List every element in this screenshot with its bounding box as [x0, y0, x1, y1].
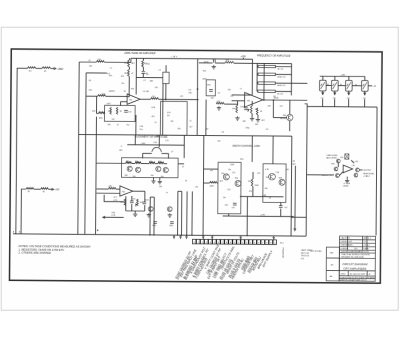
resistor ladder R16 [258, 65, 275, 68]
svg-text:7n2: 7n2 [284, 207, 287, 209]
svg-text:100p: 100p [240, 106, 244, 108]
connector PL2 pin row [192, 239, 195, 244]
wire tap [275, 66, 291, 68]
wire link [338, 85, 345, 87]
svg-text:1 ALTD BY: 1 ALTD BY [341, 237, 351, 240]
capacitor C12 [170, 222, 174, 224]
capacitor C21 [142, 72, 146, 74]
wire [127, 76, 129, 96]
svg-text:100K: 100K [209, 186, 214, 188]
wire [142, 74, 144, 78]
svg-text:PCB EDGE: PCB EDGE [281, 248, 283, 259]
svg-text:10n: 10n [232, 207, 235, 209]
svg-text:R40: R40 [156, 136, 159, 138]
svg-text:FREQUENCY OR AMPLITUDE: FREQUENCY OR AMPLITUDE [257, 54, 291, 57]
wire [161, 152, 168, 154]
wire [134, 135, 136, 145]
resistor R23 [256, 108, 258, 115]
svg-text:2K2: 2K2 [112, 91, 115, 93]
svg-text:1K2: 1K2 [217, 141, 220, 143]
resistor R5 [96, 60, 104, 62]
svg-text:+18V: +18V [340, 74, 346, 76]
svg-text:+9: +9 [240, 88, 242, 90]
resistor ladder R17 [258, 73, 275, 76]
transistor Q17 [148, 206, 153, 211]
svg-text:AMPLITUDE OR AMPLIFIER: AMPLITUDE OR AMPLIFIER [123, 52, 155, 55]
wire link [326, 84, 331, 86]
svg-text:WIDTH CONTROL CIRC: WIDTH CONTROL CIRC [232, 145, 260, 148]
svg-text:C24: C24 [227, 189, 230, 191]
svg-text:3 REDRAWN: 3 REDRAWN [340, 244, 353, 247]
wire +18V rail [131, 57, 253, 60]
wire [165, 65, 167, 72]
svg-text:TR1: TR1 [131, 88, 134, 90]
width control box left [218, 162, 241, 214]
svg-text:+5V: +5V [55, 188, 60, 191]
wire [96, 112, 98, 114]
ground [212, 65, 216, 69]
connector arrow [322, 92, 324, 94]
wire feedback [136, 76, 162, 78]
wire [128, 58, 130, 60]
transistor Q14 [336, 174, 340, 178]
wire [346, 177, 348, 179]
connector arrow [334, 92, 336, 94]
wire [216, 182, 219, 184]
svg-text:+V ADJ: +V ADJ [363, 175, 369, 178]
transistor Q10 [269, 173, 276, 180]
svg-text:4K7: 4K7 [143, 63, 146, 65]
capacitor C3 block [206, 80, 215, 96]
wire [116, 188, 120, 190]
transistor Q9 [235, 180, 241, 186]
wire 0V rail [13, 234, 306, 236]
wire bus [294, 166, 296, 229]
wire bus [153, 197, 155, 235]
wire [36, 67, 42, 69]
wire [215, 62, 225, 64]
wire [150, 196, 154, 198]
capacitor C7 [130, 201, 134, 203]
svg-text:100n: 100n [145, 199, 149, 201]
wire [125, 196, 127, 211]
ground [133, 212, 137, 216]
wire [142, 67, 144, 71]
wire input net A [16, 68, 28, 234]
svg-text:10n: 10n [223, 197, 226, 199]
svg-text:R50: R50 [240, 159, 243, 161]
wire link [352, 85, 361, 87]
junction [291, 217, 292, 218]
wire [155, 163, 158, 165]
connector arrow [364, 93, 366, 95]
wire ladder right bus [290, 64, 292, 96]
relay RLD [361, 81, 368, 92]
svg-text:NO: NO [354, 248, 357, 250]
svg-text:TR6: TR6 [234, 178, 237, 180]
wire [51, 68, 55, 70]
svg-text:10n: 10n [133, 198, 136, 200]
resistor R28 [108, 187, 116, 189]
svg-text:100: 100 [111, 119, 114, 121]
ground [235, 116, 239, 120]
wire [127, 144, 184, 146]
svg-text:-2.8V: -2.8V [260, 214, 265, 216]
svg-text:400: 400 [149, 161, 152, 163]
wire [152, 178, 154, 180]
svg-text:C12: C12 [230, 96, 233, 98]
wire [142, 153, 144, 158]
op-amp U3 [120, 186, 133, 196]
wire [251, 136, 253, 162]
wire [131, 196, 133, 201]
svg-text:47: 47 [171, 151, 173, 153]
width control box right [263, 164, 286, 203]
svg-text:+ 18 V: + 18 V [171, 56, 178, 58]
svg-text:TR9: TR9 [331, 164, 334, 166]
svg-text:2K 1%: 2K 1% [277, 93, 283, 95]
wire bus [186, 191, 188, 235]
resistor R20 [216, 102, 224, 104]
svg-text:41.7: 41.7 [113, 197, 117, 199]
capacitor C5 [213, 59, 215, 63]
svg-text:2. OTHERS ARE MARKED: 2. OTHERS ARE MARKED [17, 251, 51, 255]
wire switch bank right bus [376, 107, 377, 235]
svg-text:ADJ LEVEL: ADJ LEVEL [325, 157, 337, 160]
wire mid rail [79, 134, 292, 136]
wire [79, 61, 96, 63]
trimmer box [345, 154, 349, 159]
transistor Q18 [167, 207, 172, 212]
svg-text:480R: 480R [274, 97, 279, 99]
svg-text:C4: C4 [143, 91, 145, 93]
connector pin labels (diagonal) [174, 243, 274, 281]
wire U3 input [97, 188, 109, 190]
resistor R32 [209, 181, 217, 183]
transistor Q8 [223, 174, 229, 180]
wire connector drops [173, 235, 175, 237]
ground [250, 117, 254, 121]
resistor R24 [126, 162, 132, 164]
resistor network box [104, 105, 135, 121]
wire [237, 101, 239, 105]
wire U1 inverting input [113, 95, 127, 97]
amplifier stage box [121, 158, 178, 178]
wire [364, 91, 366, 94]
svg-text:2K2: 2K2 [225, 205, 228, 207]
svg-text:3.4V: 3.4V [291, 164, 296, 166]
wire stub [305, 104, 308, 107]
relay RLC [345, 80, 352, 91]
wire [322, 91, 324, 94]
wire [224, 103, 237, 105]
wire [252, 172, 254, 179]
svg-text:4 ISSUE: 4 ISSUE [340, 248, 348, 250]
wire [135, 115, 137, 135]
resistor R12 [98, 112, 104, 114]
capacitor C2 feedback box [163, 72, 169, 83]
wire [159, 98, 199, 100]
wire [103, 216, 124, 218]
svg-text:4D 4010 00 SHT 1: 4D 4010 00 SHT 1 [350, 274, 368, 276]
wire stub right [368, 85, 372, 87]
svg-text:1K 1%: 1K 1% [277, 69, 283, 71]
junction [97, 230, 98, 231]
transistor Q11 [279, 179, 285, 185]
resistor R22 [250, 106, 252, 114]
wire [135, 58, 137, 94]
svg-text:1K5: 1K5 [219, 181, 222, 183]
wire U1 output [140, 98, 150, 100]
transistor Q6 [156, 166, 161, 171]
svg-text:TR5: TR5 [221, 173, 224, 175]
ground [158, 180, 162, 184]
wire [322, 99, 324, 107]
capacitor C11 [153, 222, 157, 224]
ground [256, 118, 260, 122]
wire [245, 94, 253, 96]
svg-text:47: 47 [117, 124, 119, 126]
wire feedback [263, 63, 265, 100]
svg-text:10n: 10n [170, 121, 173, 123]
wire bus [85, 73, 86, 234]
wire [143, 152, 152, 154]
wire bus [78, 62, 79, 234]
svg-text:CK 4.2: CK 4.2 [363, 245, 370, 247]
svg-text:4K9: 4K9 [119, 150, 122, 152]
wire bus [246, 197, 248, 236]
wire [104, 195, 124, 202]
relay RLA [319, 80, 326, 91]
wire [199, 62, 206, 64]
relay RLB [331, 80, 338, 91]
wire [334, 99, 336, 107]
svg-text:+18: +18 [373, 86, 376, 88]
ground [168, 213, 172, 217]
wire [142, 58, 144, 60]
resistor R26 [149, 162, 155, 164]
svg-text:1n0: 1n0 [280, 106, 283, 108]
svg-text:200: 200 [135, 161, 138, 163]
svg-text:+18V: +18V [106, 103, 111, 105]
resistor R15 [225, 61, 234, 63]
resistor R21 [236, 105, 238, 113]
wire [251, 101, 253, 106]
resistor R4 [41, 188, 49, 190]
wire [96, 162, 125, 164]
wire bus [202, 135, 205, 235]
svg-text:wd: wd [210, 170, 212, 172]
trimmer arrow [136, 204, 138, 207]
svg-text:DRN P.W. CHD APP DATE 12.9.: DRN P.W. CHD APP DATE 12.9.73 [340, 279, 366, 282]
svg-text:4K7: 4K7 [151, 116, 154, 118]
svg-text:C30: C30 [352, 165, 355, 167]
wire [251, 113, 253, 116]
wire Q3 base [273, 117, 286, 119]
capacitor C4 [124, 110, 128, 112]
wire [337, 163, 339, 167]
wire [204, 168, 218, 170]
svg-text:41: 41 [88, 60, 90, 62]
wire [234, 62, 257, 64]
wire bus [95, 117, 98, 235]
resistor R10 [110, 107, 112, 114]
resistor R9 [151, 98, 159, 100]
svg-text:100n: 100n [169, 225, 173, 227]
feedback network box [160, 101, 187, 135]
wire [252, 186, 254, 196]
svg-text:INPUT: INPUT [322, 175, 329, 177]
ground [217, 106, 221, 110]
resistor R11 [116, 107, 118, 114]
svg-text:180: 180 [150, 175, 153, 177]
wire tap [275, 82, 291, 84]
wire bus [196, 59, 199, 136]
wire +18V switch bus [320, 75, 365, 77]
wire [280, 209, 282, 217]
svg-text:C2: C2 [143, 80, 145, 82]
svg-text:200: 200 [158, 161, 161, 163]
connector arrow [294, 228, 296, 230]
svg-text:10n: 10n [228, 169, 231, 171]
ground [151, 179, 155, 183]
capacitor C14 [279, 206, 283, 208]
resistor ladder R19 [258, 90, 275, 93]
wire [272, 100, 274, 117]
svg-text:NOT FITTED: NOT FITTED [310, 251, 322, 253]
wire [339, 172, 343, 176]
svg-text:100: 100 [160, 176, 163, 178]
svg-text:10n: 10n [128, 112, 131, 114]
wire Q3 emitter [289, 121, 291, 131]
svg-text:100: 100 [255, 124, 258, 126]
wire [134, 211, 136, 212]
svg-text:APP 9.1: APP 9.1 [364, 237, 372, 240]
wire tap to switch bank [291, 82, 307, 84]
svg-text:R9: R9 [146, 74, 148, 76]
svg-text:C8: C8 [221, 132, 223, 134]
wire [206, 62, 212, 64]
svg-text:TR12 D4: TR12 D4 [301, 255, 310, 257]
svg-text:C7: C7 [110, 68, 112, 70]
svg-text:SCOPEX INSTRUMENTS LTD: SCOPEX INSTRUMENTS LTD [341, 251, 369, 253]
svg-text:2 MOD 1042: 2 MOD 1042 [340, 241, 352, 243]
transistor Q13 [334, 167, 338, 171]
wire Q3 collector [289, 100, 291, 114]
wire U2 input [232, 100, 245, 102]
svg-text:100p: 100p [245, 127, 249, 129]
op-amp U1 [127, 94, 140, 105]
wire switch bank left bus [306, 107, 307, 237]
wire U1 non-inv input [121, 101, 127, 103]
notes text [17, 244, 90, 255]
svg-text:R4: R4 [89, 80, 91, 82]
ground [147, 213, 151, 217]
transistor Q15 [356, 168, 360, 172]
wire [307, 174, 332, 176]
svg-text:TR8: TR8 [278, 178, 281, 180]
connector arrow [348, 92, 350, 94]
wire [104, 58, 131, 62]
wire bus [177, 191, 179, 235]
svg-text:100: 100 [264, 188, 267, 190]
last used list [301, 249, 313, 260]
svg-text:C14: C14 [195, 186, 198, 188]
title block side text [330, 253, 334, 279]
resistor R6 [98, 95, 106, 97]
wire [351, 160, 354, 163]
svg-text:OUTPUT: OUTPUT [363, 170, 372, 172]
wire input net B [21, 189, 26, 234]
svg-text:A1 BC: A1 BC [280, 117, 286, 120]
capacitor C3 plates [209, 90, 213, 92]
wire bus [162, 83, 164, 135]
wire [141, 163, 149, 165]
wire bus [191, 191, 193, 235]
svg-text:18C: 18C [188, 92, 192, 94]
wire input [330, 174, 334, 176]
wire [144, 191, 146, 202]
wire [165, 84, 167, 100]
wire [86, 95, 98, 97]
wire [292, 216, 306, 218]
wire [95, 96, 97, 113]
transistor Q4 [127, 166, 132, 171]
svg-text:47p: 47p [228, 89, 231, 91]
wire [334, 91, 336, 94]
wire U2 output [263, 99, 307, 101]
resistor R8 [128, 69, 130, 76]
wire [158, 135, 160, 147]
svg-text:1n: 1n [166, 192, 168, 194]
capacitor C6 [244, 108, 248, 110]
wire [126, 210, 145, 212]
svg-text:C25: C25 [232, 172, 235, 174]
wire [128, 67, 130, 69]
wire U3 input 2 [96, 192, 119, 194]
wire [240, 195, 284, 197]
svg-text:4n7: 4n7 [189, 126, 192, 128]
junction [197, 88, 199, 90]
wire [120, 102, 122, 106]
junction [165, 99, 167, 101]
svg-text:C9: C9 [154, 122, 156, 124]
wire [178, 190, 182, 192]
wire [164, 163, 167, 165]
wire [159, 178, 161, 180]
svg-text:39C: 39C [207, 85, 211, 87]
title block text [340, 237, 377, 282]
resistor ladder R18 [258, 82, 275, 85]
svg-text:R67 C31: R67 C31 [301, 253, 310, 255]
resistor R27 [158, 162, 164, 164]
resistor R2 [42, 67, 51, 69]
wire [280, 202, 282, 205]
title block outline [326, 236, 375, 281]
svg-text:2K05 1%: 2K05 1% [277, 76, 285, 78]
wire [132, 162, 135, 164]
wire [167, 154, 169, 159]
wire [364, 99, 366, 107]
resistor R25 [135, 162, 141, 164]
wire bus [290, 136, 293, 236]
wire [34, 188, 41, 190]
svg-text:ALIGNMENT OR AMPLITUDE: ALIGNMENT OR AMPLITUDE [134, 136, 168, 139]
transistor Q3 [287, 114, 293, 120]
op-amp U2 [245, 92, 263, 107]
resistor R33 [251, 179, 253, 187]
transistor Q7 [163, 167, 168, 172]
